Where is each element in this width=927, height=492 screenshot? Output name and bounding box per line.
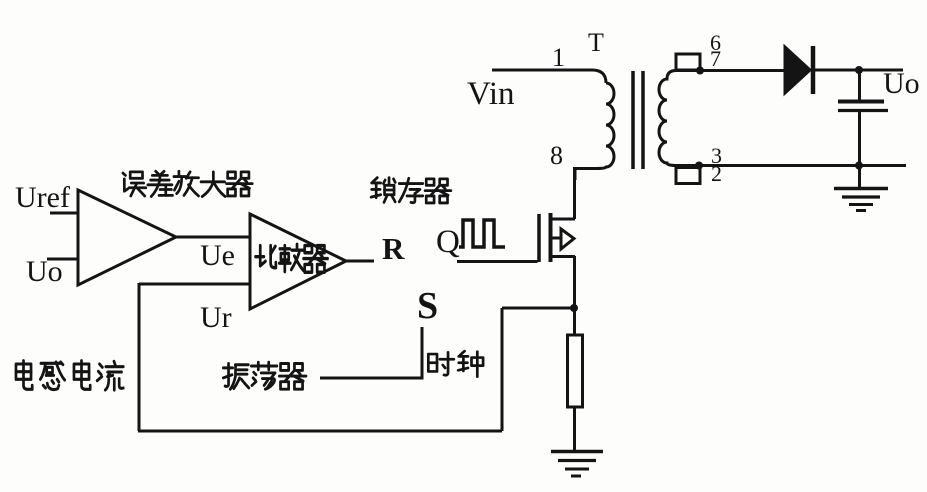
transformer core xyxy=(631,71,635,169)
wire resistor to ground xyxy=(573,407,576,451)
label: error amplifier (误差放大器) xyxy=(123,172,146,196)
polarity square (bottom, pins 3/2) xyxy=(676,168,700,184)
svg-text:Uo: Uo xyxy=(883,67,920,100)
svg-text:Ur: Ur xyxy=(200,301,232,334)
label: clock (时钟) xyxy=(428,352,454,375)
wire secondary bottom / output return xyxy=(676,164,906,167)
svg-text:2: 2 xyxy=(711,161,722,186)
label: inductor current (电感电流) xyxy=(16,361,32,390)
svg-text:T: T xyxy=(588,28,604,57)
diode D1 xyxy=(785,47,810,93)
wire gate drive xyxy=(457,260,538,263)
polarity square (top, pins 6/7) xyxy=(676,54,700,70)
wire Uref input xyxy=(50,212,78,215)
junction secondary bottom xyxy=(695,162,703,170)
transformer T primary winding xyxy=(575,83,614,180)
resistor Rs current sense xyxy=(568,335,583,407)
wire source vertical xyxy=(573,256,576,336)
svg-text:Vin: Vin xyxy=(467,76,515,112)
wire Ur input (ramp) xyxy=(139,283,250,286)
junction output top xyxy=(855,66,863,74)
label: comparator (比较器) xyxy=(256,246,276,268)
wire diode cathode to output xyxy=(815,69,903,72)
wire secondary top xyxy=(676,69,786,72)
transformer secondary winding xyxy=(659,71,676,166)
comparator U2 xyxy=(250,214,346,309)
wire Uo input xyxy=(47,258,78,261)
label: oscillator (振荡器) xyxy=(223,364,249,390)
junction current-sense node xyxy=(570,304,578,312)
svg-text:7: 7 xyxy=(710,46,721,71)
ground (output) xyxy=(834,166,888,211)
svg-text:S: S xyxy=(417,285,438,327)
wire error amp output Ue xyxy=(176,236,251,239)
wire feedback right vertical xyxy=(501,308,504,431)
op-amp U1 error amplifier xyxy=(78,190,176,285)
wire to current-sense node xyxy=(502,307,574,310)
waveform: gate pulses xyxy=(459,220,505,247)
wire oscillator to S xyxy=(320,327,422,378)
svg-text:8: 8 xyxy=(550,141,563,170)
junction secondary top xyxy=(696,67,704,75)
capacitor C1 xyxy=(838,70,888,166)
wire drain vertical xyxy=(573,167,576,219)
svg-text:R: R xyxy=(382,231,405,266)
wire comparator output xyxy=(346,260,374,263)
svg-text:Uref: Uref xyxy=(15,181,70,214)
transistor Q1 power MOSFET xyxy=(539,213,575,262)
junction output bottom xyxy=(855,162,863,170)
label: latch (锁存器) xyxy=(371,178,395,203)
svg-text:Ue: Ue xyxy=(200,239,235,272)
wire primary top lead (pin 1) xyxy=(492,70,606,83)
wire feedback bottom xyxy=(138,430,502,433)
ground (sense resistor) xyxy=(551,452,603,477)
wire feedback left vertical xyxy=(138,283,141,431)
svg-text:1: 1 xyxy=(552,43,565,72)
svg-text:Q: Q xyxy=(436,224,460,260)
